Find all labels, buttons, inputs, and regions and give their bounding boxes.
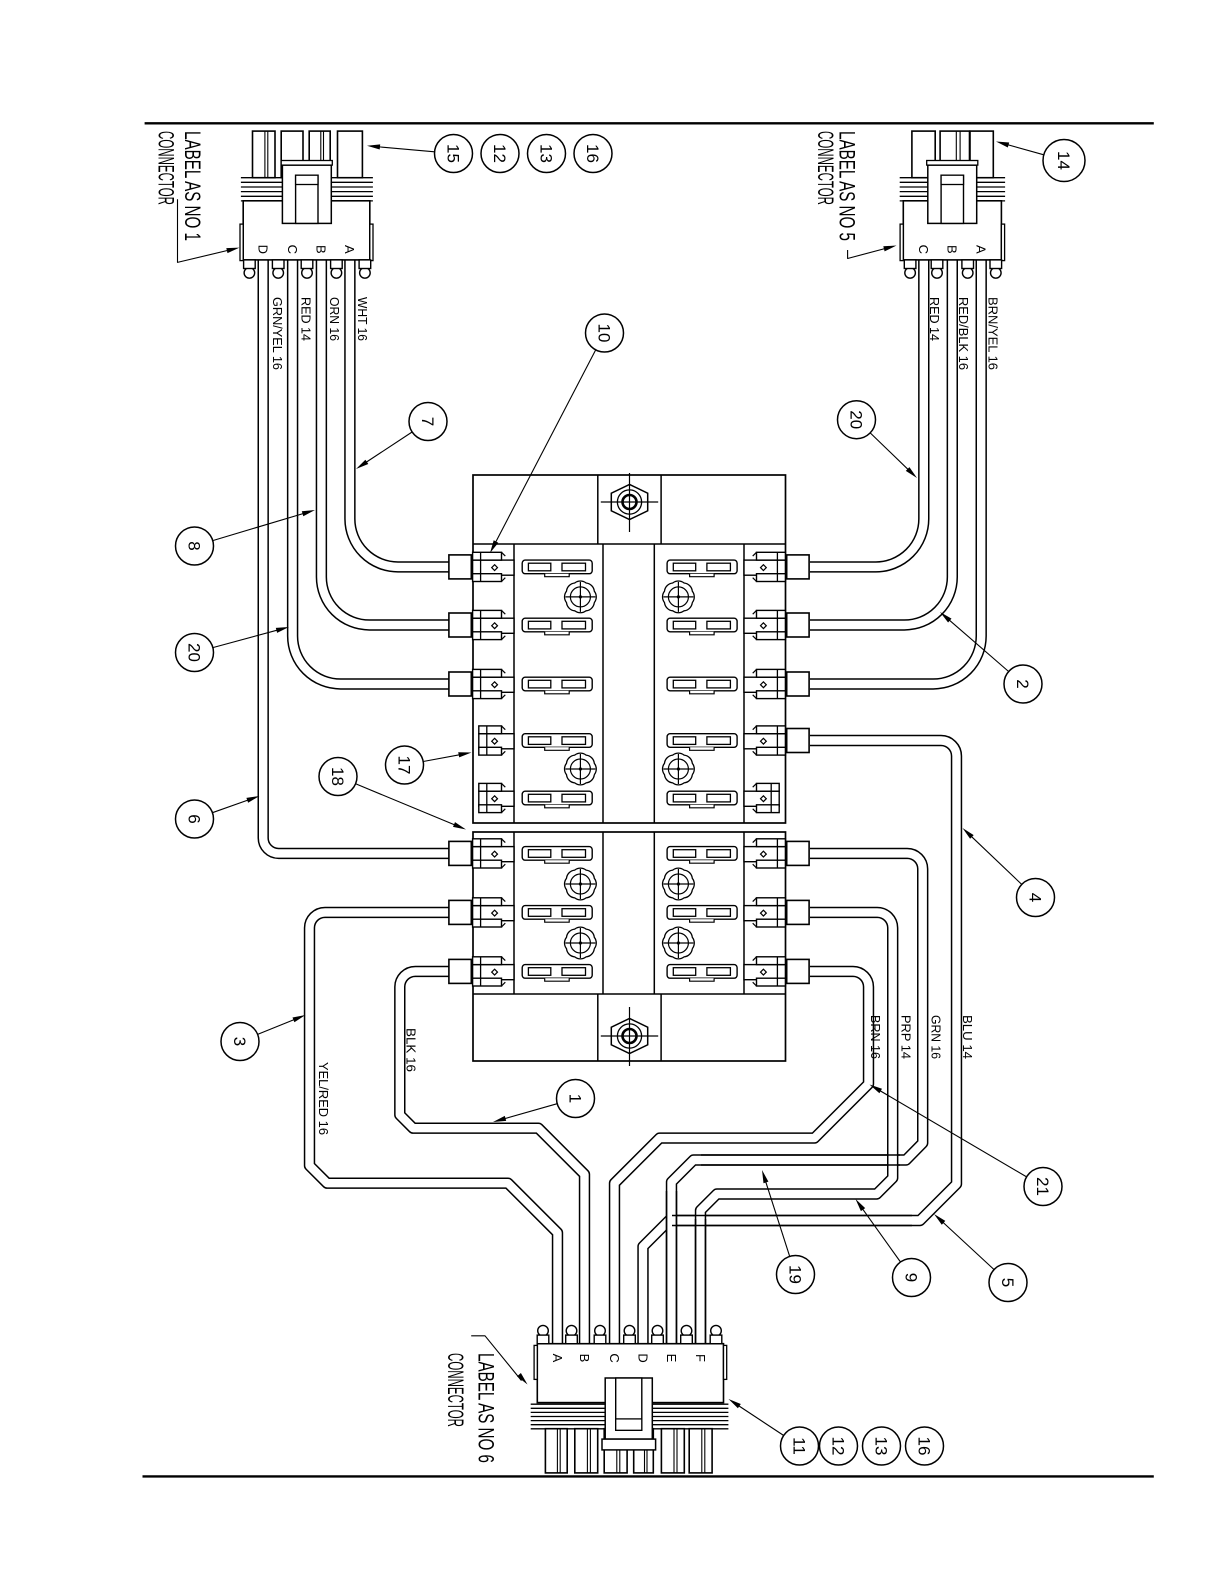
- svg-text:D: D: [256, 245, 271, 254]
- svg-text:12: 12: [828, 1437, 847, 1456]
- svg-text:YEL/RED 16: YEL/RED 16: [316, 1062, 331, 1135]
- svg-text:15: 15: [443, 144, 462, 163]
- svg-text:C: C: [607, 1353, 622, 1362]
- svg-text:11: 11: [789, 1437, 808, 1455]
- svg-text:F: F: [693, 1354, 708, 1362]
- svg-text:2: 2: [1013, 679, 1032, 688]
- svg-text:LABEL AS NO 6: LABEL AS NO 6: [474, 1353, 499, 1463]
- svg-text:5: 5: [998, 1278, 1017, 1287]
- svg-text:A: A: [342, 245, 357, 254]
- svg-text:21: 21: [1033, 1177, 1052, 1196]
- svg-text:6: 6: [184, 814, 203, 823]
- svg-text:BRN/YEL 16: BRN/YEL 16: [985, 297, 1000, 370]
- svg-text:PRP 14: PRP 14: [898, 1015, 913, 1059]
- svg-text:7: 7: [418, 417, 437, 426]
- svg-text:10: 10: [594, 324, 613, 343]
- svg-text:RED 14: RED 14: [298, 297, 313, 341]
- svg-text:16: 16: [914, 1437, 933, 1456]
- svg-text:1: 1: [565, 1094, 584, 1103]
- svg-text:GRN/YEL 16: GRN/YEL 16: [270, 297, 285, 370]
- svg-text:B: B: [577, 1354, 592, 1363]
- svg-text:12: 12: [490, 144, 509, 163]
- svg-text:B: B: [314, 245, 329, 254]
- svg-text:CONNECTOR: CONNECTOR: [153, 131, 178, 205]
- svg-text:CONNECTOR: CONNECTOR: [813, 131, 838, 205]
- svg-text:9: 9: [901, 1273, 920, 1282]
- svg-text:BLU 14: BLU 14: [960, 1015, 975, 1059]
- svg-text:C: C: [285, 245, 300, 254]
- svg-text:C: C: [916, 245, 931, 254]
- svg-text:17: 17: [394, 756, 413, 775]
- svg-text:BLK 16: BLK 16: [403, 1028, 418, 1072]
- svg-text:19: 19: [785, 1265, 804, 1284]
- svg-text:WHT 16: WHT 16: [355, 297, 370, 341]
- svg-text:4: 4: [1025, 893, 1044, 902]
- svg-text:CONNECTOR: CONNECTOR: [443, 1353, 468, 1427]
- svg-text:8: 8: [184, 541, 203, 550]
- svg-text:B: B: [945, 245, 960, 254]
- svg-text:E: E: [664, 1354, 679, 1363]
- svg-text:3: 3: [230, 1037, 249, 1046]
- svg-text:A: A: [974, 245, 989, 254]
- svg-text:14: 14: [1054, 151, 1073, 170]
- svg-text:13: 13: [871, 1437, 890, 1456]
- svg-text:BRN 16: BRN 16: [868, 1015, 883, 1059]
- svg-text:ORN 16: ORN 16: [327, 297, 342, 341]
- svg-text:20: 20: [846, 410, 865, 429]
- svg-text:20: 20: [184, 643, 203, 662]
- svg-text:RED/BLK 16: RED/BLK 16: [956, 297, 971, 370]
- svg-text:RED 14: RED 14: [927, 297, 942, 341]
- svg-text:16: 16: [583, 144, 602, 163]
- svg-text:GRN 16: GRN 16: [928, 1015, 943, 1059]
- svg-text:D: D: [635, 1353, 650, 1362]
- svg-text:LABEL AS NO 1: LABEL AS NO 1: [180, 131, 205, 241]
- svg-text:13: 13: [536, 144, 555, 163]
- svg-text:18: 18: [328, 767, 347, 786]
- svg-text:A: A: [550, 1354, 565, 1363]
